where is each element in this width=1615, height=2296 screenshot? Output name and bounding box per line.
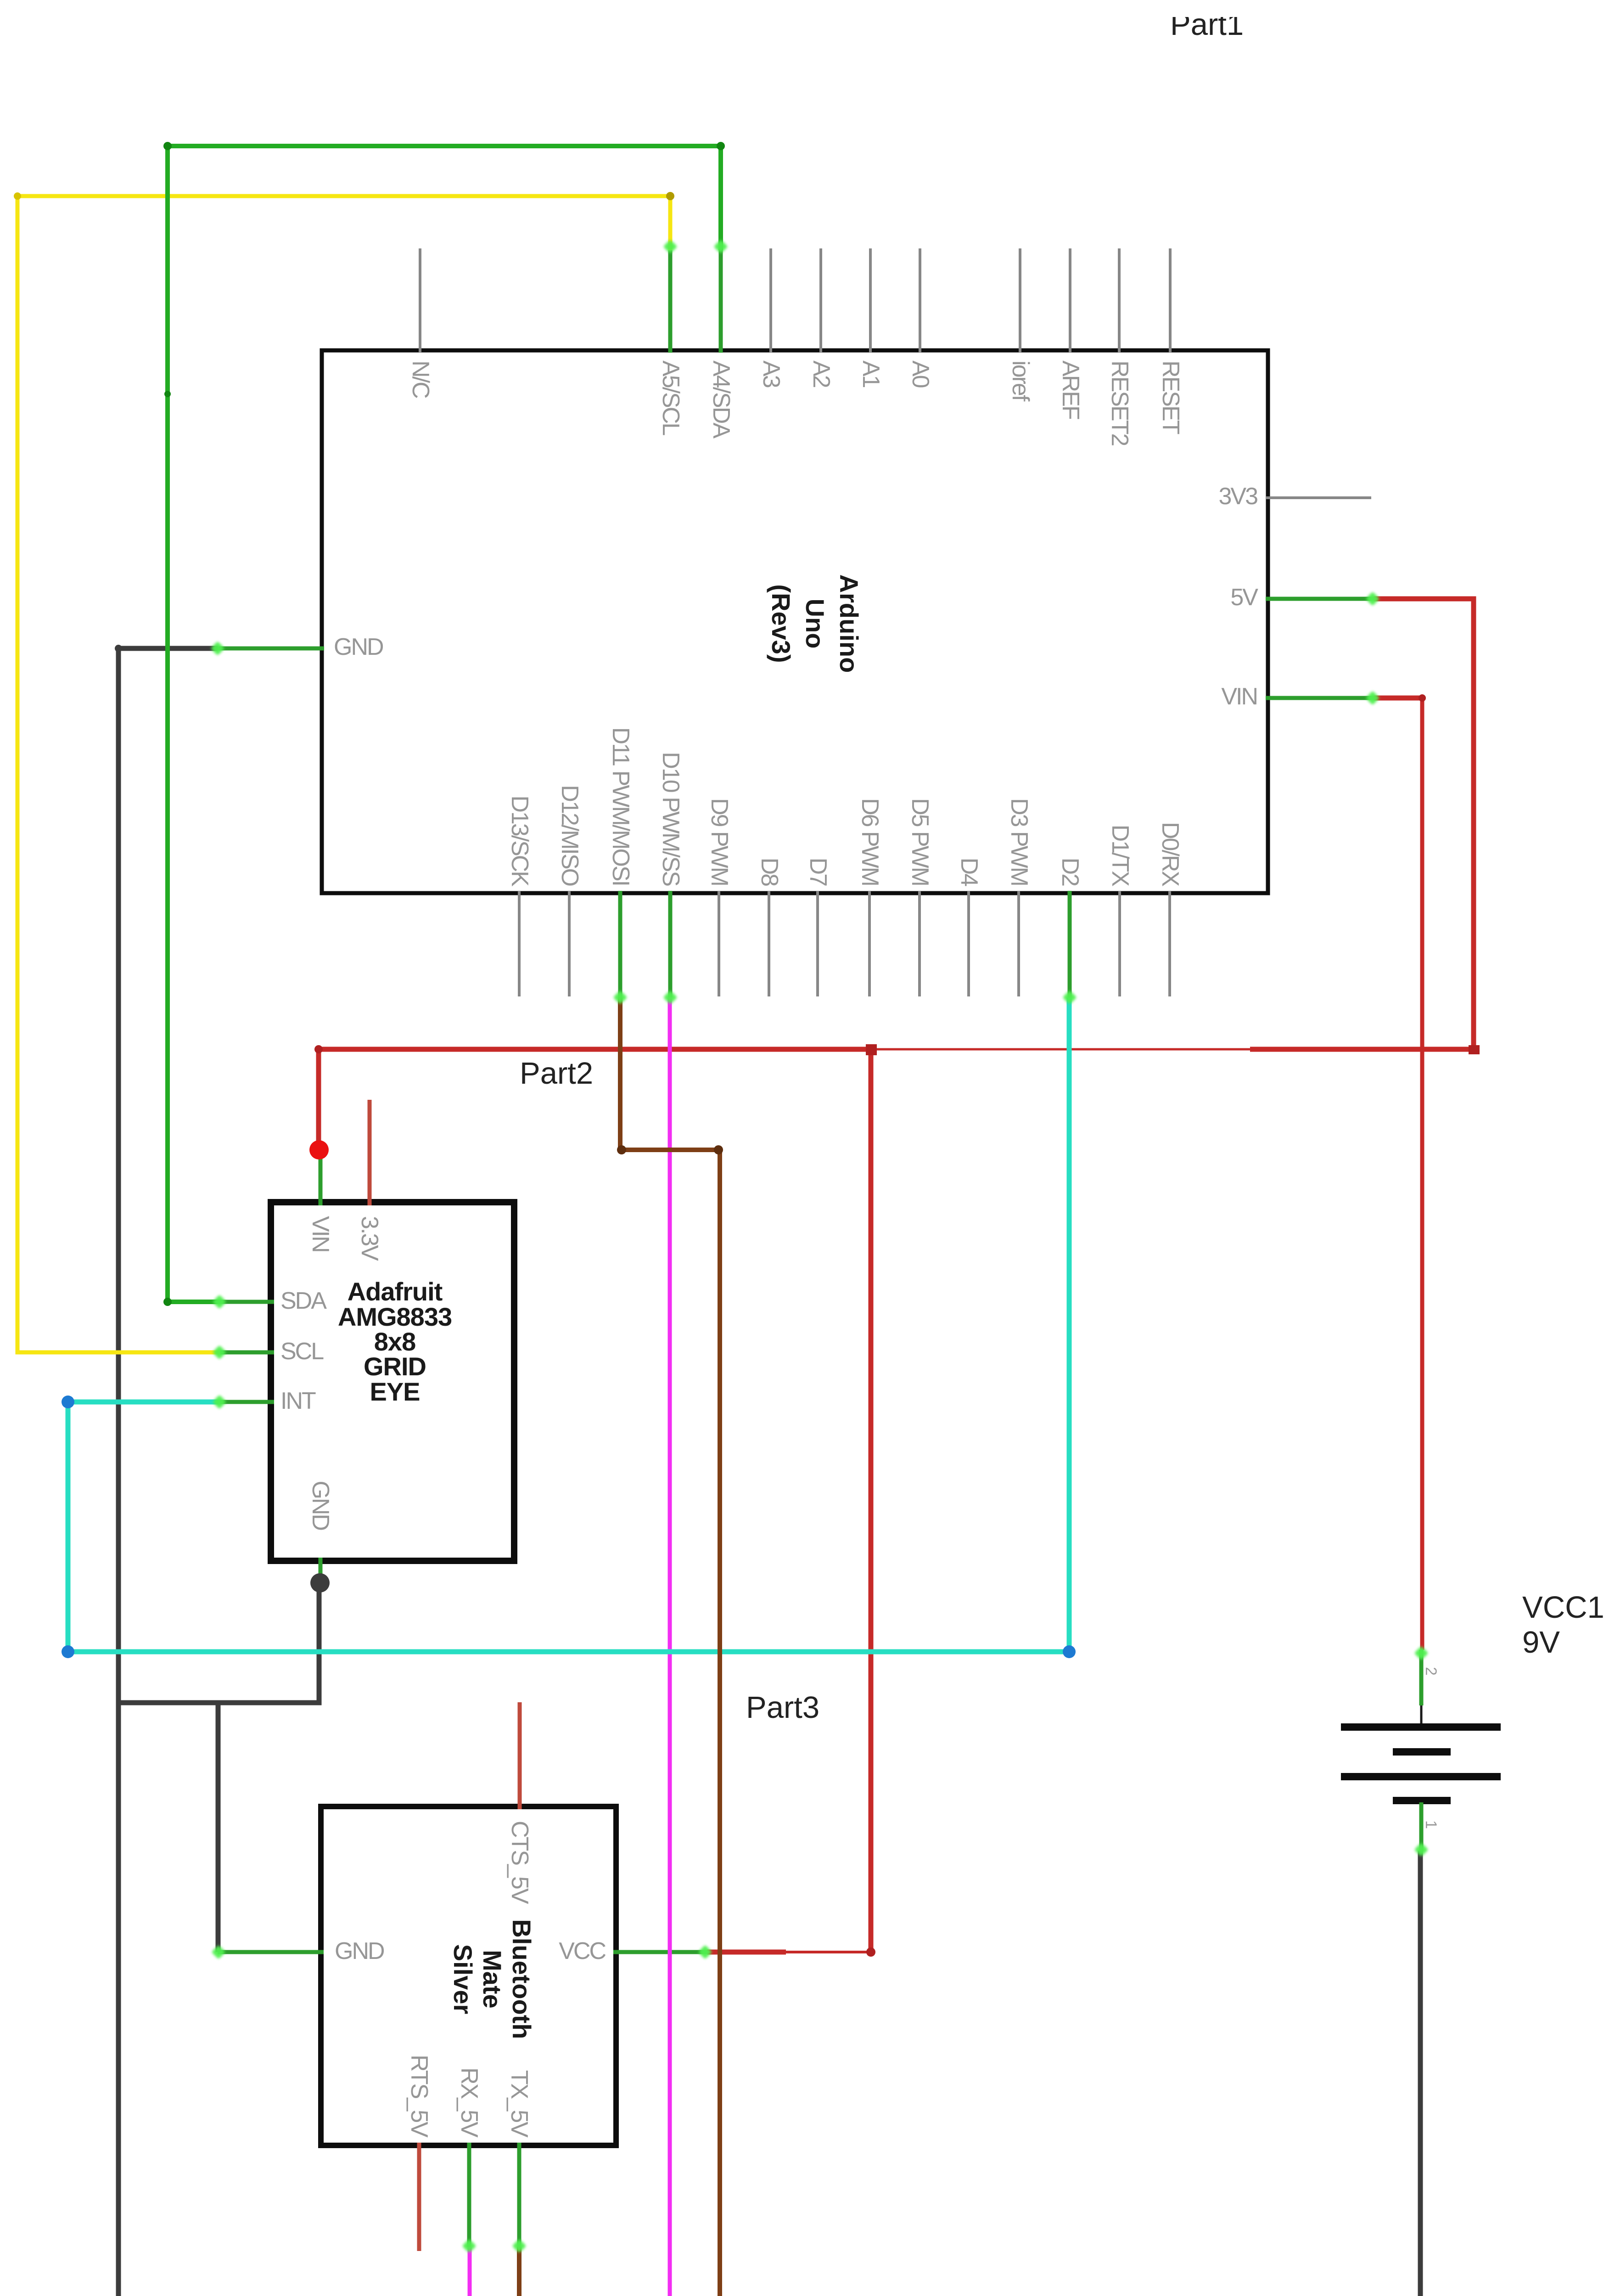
svg-text:D0/RX: D0/RX	[1157, 822, 1183, 886]
pin D7	[805, 858, 831, 996]
pin D8	[756, 858, 783, 996]
node marker A5/SCL	[663, 239, 677, 253]
svg-text:Mate: Mate	[478, 1950, 507, 2009]
junction dots brown	[617, 1145, 626, 1154]
svg-text:N/C: N/C	[407, 360, 434, 398]
wire GND: branch to AMG8833 GND junction	[118, 1583, 319, 1703]
node blue dot at cyan right corner below D2	[1063, 1645, 1076, 1658]
svg-text:D6 PWM: D6 PWM	[857, 798, 883, 885]
svg-text:ioref: ioref	[1007, 360, 1034, 402]
battery VCC1 9V	[1341, 1650, 1501, 1851]
pin D1/TX	[1107, 825, 1133, 996]
pin ioref	[1007, 248, 1034, 402]
svg-text:TX_5V: TX_5V	[506, 2070, 533, 2138]
svg-text:VCC1: VCC1	[1522, 1590, 1604, 1625]
pin AREF	[1057, 248, 1084, 419]
junction dots yellow	[666, 192, 674, 200]
pin D11 PWM/MOSI	[607, 727, 634, 997]
pin VIN (Arduino)	[1221, 683, 1374, 710]
node blue dot at INT corner	[62, 1396, 74, 1408]
pin D2	[1057, 858, 1083, 997]
svg-text:A5/SCL: A5/SCL	[657, 360, 684, 435]
svg-text:CTS_5V: CTS_5V	[506, 1821, 533, 1904]
svg-text:D9 PWM: D9 PWM	[706, 798, 733, 885]
svg-text:RTS_5V: RTS_5V	[406, 2054, 432, 2138]
svg-text:A1: A1	[858, 360, 884, 388]
node marker A4/SDA	[713, 239, 728, 253]
pin TX_5V	[506, 2070, 533, 2247]
node marker battery pin 2	[1414, 1646, 1428, 1660]
pin A0	[907, 248, 934, 388]
svg-text:Uno: Uno	[801, 599, 830, 649]
svg-text:A2: A2	[808, 360, 835, 388]
pin A1	[858, 248, 884, 388]
svg-text:3V3: 3V3	[1218, 483, 1257, 510]
pin RESET2	[1106, 248, 1133, 445]
wire 5V: drop to AMG VIN	[316, 1049, 321, 1150]
node marker BT VCC	[698, 1945, 712, 1959]
svg-text:3.3V: 3.3V	[356, 1216, 383, 1261]
svg-text:2: 2	[1422, 1667, 1440, 1676]
svg-text:VIN: VIN	[307, 1216, 334, 1252]
pin VCC	[559, 1938, 707, 1964]
svg-text:Part2: Part2	[520, 1056, 593, 1091]
svg-text:GND: GND	[335, 1938, 384, 1964]
svg-text:1: 1	[1422, 1820, 1440, 1829]
svg-text:(Rev3): (Rev3)	[767, 584, 796, 663]
node marker Arduino GND	[210, 641, 224, 655]
pin GND (Bluetooth)	[218, 1938, 384, 1964]
node marker VIN	[1365, 691, 1379, 705]
pin RESET	[1157, 248, 1184, 434]
svg-text:Adafruit: Adafruit	[348, 1277, 443, 1306]
svg-text:GND: GND	[334, 634, 383, 660]
pin VIN (AMG8833)	[307, 1150, 334, 1252]
svg-text:D13/SCK: D13/SCK	[506, 795, 533, 887]
node marker D11	[613, 990, 627, 1004]
pin GND (AMG8833)	[307, 1480, 334, 1583]
svg-text:D3 PWM: D3 PWM	[1006, 798, 1032, 885]
junction dot at AMG VIN (bright red)	[309, 1140, 329, 1159]
pin D6 PWM	[857, 798, 883, 996]
pin A5/SCL	[657, 248, 684, 435]
wire D10-RX: down, across, up to RX_5V	[470, 997, 670, 2296]
svg-text:D8: D8	[756, 858, 783, 886]
svg-text:SCL: SCL	[280, 1338, 324, 1365]
wire GND: battery negative lead down	[1418, 1851, 1423, 2296]
node marker AMG SCL	[212, 1345, 226, 1359]
value label VCC1 9V	[1522, 1590, 1604, 1660]
svg-text:A3: A3	[758, 360, 785, 388]
svg-text:9V: 9V	[1522, 1625, 1560, 1660]
node marker AMG INT	[212, 1395, 226, 1409]
svg-text:D5 PWM: D5 PWM	[907, 798, 933, 885]
node marker AMG SDA	[212, 1294, 226, 1309]
pin INT	[219, 1388, 316, 1414]
svg-text:Bluetooth: Bluetooth	[507, 1919, 536, 2039]
wire INT: AMG INT left, down, across, up to D2	[68, 997, 1069, 1652]
wire 5V: branch down to Bluetooth VCC	[869, 1049, 874, 1952]
node marker BT RX_5V	[462, 2239, 476, 2253]
junction dots green	[717, 142, 725, 150]
pin 3.3V (AMG8833, unconnected)	[356, 1100, 383, 1261]
pin D0/RX	[1157, 822, 1183, 996]
node marker BT TX_5V	[512, 2239, 526, 2253]
pin A2	[808, 248, 835, 388]
pin CTS_5V (unconnected)	[506, 1702, 533, 1904]
IC U3 Bluetooth Mate Silver body	[321, 1806, 616, 2145]
node marker D2	[1062, 990, 1077, 1004]
pin RTS_5V (unconnected)	[406, 2054, 432, 2251]
svg-text:RESET: RESET	[1157, 360, 1184, 434]
node blue dot at lower cyan left corner	[62, 1645, 74, 1658]
wire GND: branch down to Bluetooth GND	[216, 1703, 221, 1952]
svg-text:EYE: EYE	[370, 1377, 420, 1406]
svg-text:D12/MISO: D12/MISO	[556, 785, 583, 885]
svg-text:GRID: GRID	[364, 1352, 426, 1381]
pin D3 PWM	[1006, 798, 1032, 996]
svg-text:A0: A0	[907, 360, 934, 388]
pin N/C	[407, 248, 434, 398]
pin D13/SCK	[506, 795, 533, 996]
junction corner dots gray	[115, 645, 122, 652]
node marker D10	[663, 990, 677, 1004]
pin A3	[758, 248, 785, 388]
svg-text:RESET2: RESET2	[1106, 360, 1133, 445]
svg-text:D1/TX: D1/TX	[1107, 825, 1133, 887]
junction corner caps red	[1469, 1045, 1480, 1054]
wire SCL: A5/SCL up, across, down to AMG SCL	[17, 196, 670, 1352]
node marker BT GND	[211, 1945, 225, 1959]
svg-text:D10 PWM/SS: D10 PWM/SS	[657, 752, 684, 886]
IC U1 Arduino Uno (Rev3) body	[322, 350, 1268, 893]
svg-text:Part3: Part3	[746, 1690, 819, 1725]
svg-text:VCC: VCC	[559, 1938, 606, 1964]
junction red square at branch	[866, 1044, 877, 1055]
wire 5V: long horizontal to AMG VIN column	[319, 1047, 872, 1052]
wire GND: Arduino GND to left rail	[118, 648, 218, 2296]
pin 3V3	[1218, 483, 1371, 510]
svg-text:SDA: SDA	[280, 1288, 327, 1314]
wire D11-TX: down, jog right, down, across, up to TX_5V	[519, 997, 720, 2296]
svg-text:AREF: AREF	[1057, 360, 1084, 419]
node marker battery pin 1	[1414, 1842, 1428, 1857]
pin D9 PWM	[706, 798, 733, 996]
pin D12/MISO	[556, 785, 583, 996]
svg-text:Arduino: Arduino	[835, 574, 864, 673]
wire SDA: A4/SDA up, across, down to AMG SDA	[168, 146, 721, 1302]
svg-text:D11 PWM/MOSI: D11 PWM/MOSI	[607, 727, 634, 885]
svg-text:INT: INT	[280, 1388, 316, 1414]
pin D10 PWM/SS	[657, 752, 684, 997]
node marker 5V	[1365, 591, 1379, 606]
pin SDA	[219, 1288, 327, 1314]
svg-text:RX_5V: RX_5V	[456, 2067, 482, 2138]
pin 5V	[1230, 584, 1374, 611]
junction GND dot below AMG8833	[310, 1573, 330, 1593]
wire VIN: Arduino VIN right then down to battery +	[1374, 696, 1422, 701]
svg-text:D2: D2	[1057, 858, 1083, 886]
IC U2 Adafruit AMG8833 8x8 GRID EYE body	[271, 1202, 514, 1561]
svg-text:Silver: Silver	[449, 1944, 477, 2015]
pin A4/SDA	[708, 248, 735, 439]
svg-text:GND: GND	[307, 1480, 334, 1530]
wire 5V: Arduino 5V right then down	[1374, 599, 1474, 1049]
pin RX_5V	[456, 2067, 482, 2247]
svg-text:A4/SDA: A4/SDA	[708, 360, 735, 439]
pin D4	[956, 858, 982, 996]
svg-text:D4: D4	[956, 858, 982, 887]
svg-text:VIN: VIN	[1221, 683, 1257, 710]
svg-text:D7: D7	[805, 858, 831, 886]
pin SCL	[219, 1338, 324, 1365]
pin GND (Arduino)	[218, 634, 383, 660]
pin D5 PWM	[907, 798, 933, 996]
svg-text:5V: 5V	[1230, 584, 1258, 611]
